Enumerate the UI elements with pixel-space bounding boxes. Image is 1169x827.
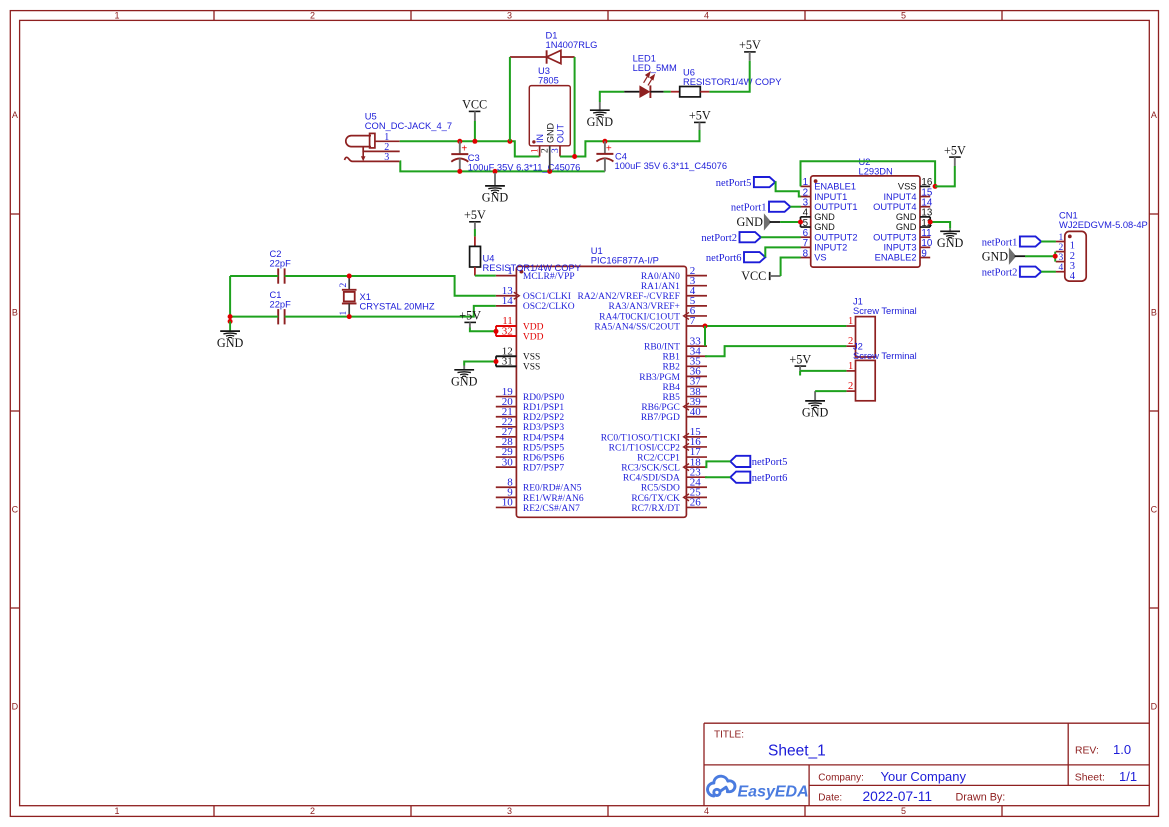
svg-text:D1: D1 <box>546 31 558 41</box>
svg-text:X1: X1 <box>360 292 371 302</box>
U1 pin 36 (RB3/PGM) <box>639 366 707 383</box>
svg-text:5: 5 <box>901 806 906 816</box>
capacitor C1 22pF <box>270 290 292 325</box>
power flag VCC <box>462 98 487 121</box>
wire +5V to U4 <box>474 229 476 236</box>
wire VCC stub <box>474 121 476 141</box>
U1 pin 32 (VDD) <box>496 325 544 342</box>
diode D1 1N4007RLG <box>510 31 598 64</box>
wire netPort2 to CN1 pin4 <box>1041 271 1056 273</box>
U1 pin 7 (RA5/AN4/SS/C2OUT) <box>594 315 707 332</box>
svg-text:2: 2 <box>310 806 315 816</box>
svg-text:RA1/AN1: RA1/AN1 <box>641 282 680 292</box>
net port netPort2 (CN1) <box>982 267 1041 279</box>
svg-text:2: 2 <box>848 381 853 392</box>
U1 pin 37 (RB4) <box>662 376 707 393</box>
U1 pin 8 (RE0/RD#/AN5) <box>496 476 582 493</box>
U2 pin 16 (VSS) <box>898 177 933 191</box>
svg-text:RB7/PGD: RB7/PGD <box>641 413 680 423</box>
svg-text:CN1: CN1 <box>1059 210 1078 220</box>
svg-text:Screw Terminal: Screw Terminal <box>853 306 917 316</box>
U2 pin 14 (OUTPUT4) <box>873 198 933 212</box>
svg-text:RA4/T0CKI/C1OUT: RA4/T0CKI/C1OUT <box>599 312 680 322</box>
U2 pin 5 (GND) <box>801 218 836 232</box>
EasyEDA logo <box>708 776 735 796</box>
svg-text:RC5/SDO: RC5/SDO <box>641 484 680 494</box>
svg-text:RD7/PSP7: RD7/PSP7 <box>523 464 564 474</box>
svg-text:30: 30 <box>502 456 514 468</box>
U1 pin 35 (RB2) <box>662 356 707 373</box>
svg-text:1: 1 <box>848 361 853 372</box>
svg-text:4: 4 <box>704 10 709 20</box>
svg-text:4: 4 <box>704 806 709 816</box>
net port netPort1 (CN1) <box>982 236 1041 248</box>
svg-text:3: 3 <box>507 806 512 816</box>
CN1 pin 3 <box>1056 253 1075 272</box>
svg-text:RESISTOR1/4W COPY: RESISTOR1/4W COPY <box>483 263 582 273</box>
wire RA5 to J1 pin1 <box>705 325 846 327</box>
svg-text:3: 3 <box>384 152 389 163</box>
junction <box>228 314 233 319</box>
svg-text:Sheet_1: Sheet_1 <box>768 742 826 759</box>
U2 pin 7 (INPUT2) <box>801 238 848 252</box>
screw terminal J2 <box>846 341 916 401</box>
wire LED to R <box>664 91 671 93</box>
svg-text:1: 1 <box>848 316 853 327</box>
U1 pin 29 (RD6/PSP6) <box>496 446 565 463</box>
U2 pin 3 (OUTPUT1) <box>801 198 858 212</box>
svg-text:1: 1 <box>530 148 540 153</box>
svg-text:PIC16F877A-I/P: PIC16F877A-I/P <box>591 256 659 266</box>
svg-text:1N4007RLG: 1N4007RLG <box>546 40 598 50</box>
junction <box>1053 254 1058 259</box>
svg-text:RD1/PSP1: RD1/PSP1 <box>523 403 564 413</box>
U1 pin 14 (OSC2/CLKO) <box>496 295 575 312</box>
svg-text:RB6/PGC: RB6/PGC <box>641 403 680 413</box>
U2 pin 1 (ENABLE1) <box>801 177 857 191</box>
svg-text:GND: GND <box>587 115 614 129</box>
svg-text:RE2/CS#/AN7: RE2/CS#/AN7 <box>523 504 580 514</box>
svg-text:CON_DC-JACK_4_7: CON_DC-JACK_4_7 <box>365 121 452 131</box>
svg-text:1/1: 1/1 <box>1119 769 1137 784</box>
U1 pin 9 (RE1/WR#/AN6) <box>496 487 584 504</box>
wire LED gnd branch <box>600 92 624 102</box>
capacitor C2 22pF <box>270 249 292 284</box>
U1 pin 16 (RC1/T1OSI/CCP2) <box>609 436 707 453</box>
U1 pin 15 (RC0/T1OSO/T1CKI) <box>601 426 707 443</box>
svg-text:GND: GND <box>896 212 917 222</box>
svg-text:GND: GND <box>482 191 509 205</box>
junction <box>347 314 352 319</box>
svg-text:GND: GND <box>814 222 835 232</box>
svg-text:VCC: VCC <box>462 98 487 112</box>
svg-text:1: 1 <box>1058 233 1063 243</box>
ground flag GND (CN1 pins 2,3) <box>982 249 1025 264</box>
wire jack pin3 to bottom rail <box>400 161 605 171</box>
capacitor C3 <box>451 141 580 172</box>
svg-text:OSC2/CLKO: OSC2/CLKO <box>523 302 575 312</box>
IC U1 PIC16F877A-I/P <box>516 246 686 517</box>
U1 pin 17 (RC2/CCP1) <box>637 446 707 463</box>
U2 pin 4 (GND) <box>801 208 836 222</box>
LED LED1 LED_5MM <box>624 53 677 98</box>
svg-text:netPort5: netPort5 <box>752 457 788 468</box>
svg-text:9: 9 <box>921 248 926 259</box>
svg-text:CRYSTAL 20MHZ: CRYSTAL 20MHZ <box>360 301 435 311</box>
junction <box>457 139 462 144</box>
svg-text:netPort1: netPort1 <box>731 203 767 214</box>
title block <box>704 723 1149 806</box>
svg-text:RB0/INT: RB0/INT <box>644 343 680 353</box>
svg-text:7: 7 <box>690 315 696 327</box>
CN1 pin 4 <box>1056 263 1076 282</box>
ground GND (VSS) <box>451 366 478 389</box>
svg-text:D: D <box>12 701 19 711</box>
wire netPort5 to RC3 <box>705 461 730 467</box>
U1 pin 19 (RD0/PSP0) <box>496 386 565 403</box>
net port netPort5 (U2) <box>716 177 775 189</box>
U1 pin 38 (RB5) <box>662 386 707 403</box>
svg-text:+5V: +5V <box>459 309 481 323</box>
wire netPort1 to CN1 pin1 <box>1041 241 1056 243</box>
ground flag GND (U2 pins 4,5) <box>736 215 780 230</box>
junction <box>493 169 498 174</box>
svg-text:B: B <box>1151 307 1157 317</box>
wire R to +5V <box>709 61 749 92</box>
junction <box>798 220 803 225</box>
svg-text:MCLR#/VPP: MCLR#/VPP <box>523 272 575 282</box>
svg-text:RC7/RX/DT: RC7/RX/DT <box>631 504 680 514</box>
U1 pin 28 (RD5/PSP5) <box>496 436 565 453</box>
U2 pin 15 (INPUT4) <box>883 187 932 201</box>
U1 pin 11 (VDD) <box>496 315 544 332</box>
wire D1 left branch <box>509 57 511 141</box>
svg-text:1: 1 <box>114 10 119 20</box>
svg-text:GND: GND <box>937 236 964 250</box>
U1 pin 22 (RD3/PSP3) <box>496 416 565 433</box>
svg-text:1: 1 <box>114 806 119 816</box>
U2 pin 12 (GND) <box>896 218 932 232</box>
svg-text:GND: GND <box>545 123 555 144</box>
svg-text:3: 3 <box>551 148 561 153</box>
svg-text:GND: GND <box>736 215 763 229</box>
svg-text:netPort6: netPort6 <box>706 253 742 264</box>
svg-text:2: 2 <box>1058 243 1063 253</box>
svg-text:+: + <box>606 143 612 154</box>
svg-text:INPUT4: INPUT4 <box>883 192 916 202</box>
regulator U3 7805 <box>529 66 570 172</box>
U2 pin 8 (VS) <box>801 248 827 262</box>
svg-text:1: 1 <box>339 311 349 316</box>
U1 pin 5 (RA3/AN3/VREF+) <box>609 295 707 312</box>
svg-text:OUTPUT2: OUTPUT2 <box>814 232 857 242</box>
connector U5 CON_DC-JACK_4_7 <box>345 112 453 164</box>
svg-text:U3: U3 <box>538 66 550 76</box>
svg-text:RA2/AN2/VREF-/CVREF: RA2/AN2/VREF-/CVREF <box>577 292 679 302</box>
wire main input rail <box>400 141 540 156</box>
svg-text:J1: J1 <box>853 297 863 307</box>
svg-text:U4: U4 <box>483 253 495 263</box>
crystal X1 CRYSTAL 20MHZ <box>339 276 435 317</box>
U1 pin 31 (VSS) <box>496 356 541 373</box>
wire netPort1 to pin3 <box>790 206 800 208</box>
power flag +5V (U6) <box>739 38 761 61</box>
ground GND (J2) <box>802 391 829 420</box>
wire netPort5 to pin2 <box>775 182 801 196</box>
svg-text:EasyEDA: EasyEDA <box>738 784 809 801</box>
svg-text:VSS: VSS <box>523 353 540 363</box>
net port netPort1 (U2) <box>731 202 790 214</box>
ground GND under C3 <box>482 173 509 205</box>
svg-text:RA3/AN3/VREF+: RA3/AN3/VREF+ <box>609 302 680 312</box>
svg-text:RB4: RB4 <box>662 383 680 393</box>
svg-text:RC1/T1OSI/CCP2: RC1/T1OSI/CCP2 <box>609 443 681 453</box>
svg-text:2022-07-11: 2022-07-11 <box>863 789 933 804</box>
svg-text:OUTPUT3: OUTPUT3 <box>873 232 916 242</box>
svg-text:RB1: RB1 <box>662 353 680 363</box>
svg-text:netPort2: netPort2 <box>701 233 737 244</box>
svg-text:Screw Terminal: Screw Terminal <box>853 351 917 361</box>
CN1 pin 2 <box>1056 243 1075 262</box>
resistor U6 RESISTOR1/4W COPY <box>671 68 782 97</box>
svg-text:5: 5 <box>901 10 906 20</box>
net port netPort6 (U1) <box>730 472 787 484</box>
ground GND at LED <box>587 102 614 129</box>
wire GND to pins 4,5 <box>780 221 800 223</box>
U1 pin 6 (RA4/T0CKI/C1OUT) <box>599 305 707 322</box>
svg-text:J2: J2 <box>853 341 863 351</box>
svg-text:3: 3 <box>1058 253 1063 263</box>
svg-text:+5V: +5V <box>464 208 486 222</box>
svg-text:GND: GND <box>802 406 829 420</box>
wire D1 right branch <box>574 57 576 157</box>
svg-text:OUTPUT1: OUTPUT1 <box>814 202 857 212</box>
junction C4 top <box>602 139 607 144</box>
power flag +5V (VDD) <box>459 309 481 328</box>
ground GND (U2 right) <box>937 228 964 250</box>
junction <box>228 319 233 324</box>
svg-text:IN: IN <box>535 134 545 143</box>
svg-text:U6: U6 <box>683 68 695 78</box>
wire U3 out to +5V rail <box>560 130 700 157</box>
wire RA5 to RB0 <box>704 326 706 346</box>
junction <box>494 359 499 364</box>
svg-text:100uF 35V 6.3*11_C45076: 100uF 35V 6.3*11_C45076 <box>468 163 581 173</box>
wire RB1 to J1 pin2 <box>705 346 846 356</box>
U2 pin 6 (OUTPUT2) <box>801 228 858 242</box>
U1 pin 26 (RC7/RX/DT) <box>631 497 707 514</box>
wire U4 to MCLR <box>475 275 496 277</box>
svg-text:VS: VS <box>814 253 826 263</box>
svg-text:RD3/PSP3: RD3/PSP3 <box>523 423 564 433</box>
svg-text:Date:: Date: <box>818 792 842 803</box>
svg-text:Drawn By:: Drawn By: <box>956 791 1006 803</box>
wire VSS to GND <box>464 362 496 366</box>
wire +5V to VDD <box>470 328 496 332</box>
junction VSS <box>933 184 938 189</box>
svg-text:100uF 35V 6.3*11_C45076: 100uF 35V 6.3*11_C45076 <box>615 161 728 171</box>
svg-text:+5V: +5V <box>789 352 811 366</box>
U1 pin 40 (RB7/PGD) <box>641 406 707 423</box>
net port netPort2 (U2) <box>701 232 760 244</box>
svg-text:netPort2: netPort2 <box>982 268 1018 279</box>
svg-text:RC2/CCP1: RC2/CCP1 <box>637 453 680 463</box>
ground GND (crystal) <box>217 321 244 350</box>
wire GND to CN1 pins 2,3 <box>1025 255 1055 257</box>
svg-text:Your Company: Your Company <box>881 769 967 784</box>
svg-text:+5V: +5V <box>739 38 761 52</box>
net port netPort6 (U2) <box>706 252 765 264</box>
svg-text:26: 26 <box>690 497 702 509</box>
U1 pin 13 (OSC1/CLKI) <box>496 285 571 302</box>
svg-text:VDD: VDD <box>523 322 544 332</box>
U1 pin 2 (RA0/AN0) <box>641 265 707 282</box>
svg-text:GND: GND <box>451 375 478 389</box>
svg-text:Sheet:: Sheet: <box>1075 773 1105 784</box>
svg-text:RB3/PGM: RB3/PGM <box>639 373 680 383</box>
svg-text:RD6/PSP6: RD6/PSP6 <box>523 453 564 463</box>
wire U2 pins 12,13 to GND <box>929 217 931 227</box>
power flag +5V (J2) <box>789 352 811 371</box>
VSS tie bracket <box>495 356 497 366</box>
connector CN1 WJ2EDGVM-5.08-4P <box>1059 210 1148 281</box>
wire +5V to J2 pin1 <box>800 370 846 372</box>
svg-text:C3: C3 <box>468 153 480 163</box>
resistor U4 RESISTOR1/4W COPY <box>470 236 582 275</box>
svg-text:4: 4 <box>1058 263 1063 273</box>
U1 pin 12 (VSS) <box>496 345 541 362</box>
svg-text:ENABLE1: ENABLE1 <box>814 182 856 192</box>
junction U3 pin2 <box>547 169 552 174</box>
U1 pin 39 (RB6/PGC) <box>641 396 707 413</box>
svg-text:10: 10 <box>502 497 514 509</box>
wire OSC2 net <box>229 276 231 321</box>
wire netPort6 to RC4 <box>705 476 730 478</box>
U1 pin 34 (RB1) <box>662 345 707 362</box>
wire +5V to VSS <box>935 166 955 186</box>
svg-text:8: 8 <box>803 248 809 259</box>
svg-text:VCC: VCC <box>741 269 766 283</box>
U1 pin 27 (RD4/PSP4) <box>496 426 565 443</box>
wire netPort6 to pin7 <box>765 247 800 257</box>
svg-text:VSS: VSS <box>898 182 917 192</box>
U1 pin 33 (RB0/INT) <box>644 335 707 352</box>
svg-text:7805: 7805 <box>538 75 559 85</box>
svg-text:OUTPUT4: OUTPUT4 <box>873 202 916 212</box>
svg-text:RC4/SDI/SDA: RC4/SDI/SDA <box>623 474 680 484</box>
U1 pin 23 (RC4/SDI/SDA) <box>623 466 707 483</box>
U1 pin 20 (RD1/PSP1) <box>496 396 565 413</box>
svg-text:INPUT1: INPUT1 <box>814 192 847 202</box>
svg-text:RC6/TX/CK: RC6/TX/CK <box>631 494 680 504</box>
power flag VCC (U2 pin8) <box>741 269 780 283</box>
U1 pin 21 (RD2/PSP2) <box>496 406 565 423</box>
svg-text:1.0: 1.0 <box>1113 742 1131 757</box>
svg-text:OSC1/CLKI: OSC1/CLKI <box>523 292 571 302</box>
svg-text:U5: U5 <box>365 112 377 122</box>
svg-text:C: C <box>1151 504 1158 514</box>
U2 pin 13 (GND) <box>896 208 933 222</box>
svg-text:A: A <box>1151 110 1157 120</box>
svg-text:4: 4 <box>1070 271 1076 282</box>
svg-text:40: 40 <box>690 406 702 418</box>
svg-text:C4: C4 <box>615 152 627 162</box>
junction <box>457 169 462 174</box>
svg-text:RD4/PSP4: RD4/PSP4 <box>523 433 564 443</box>
svg-text:RD2/PSP2: RD2/PSP2 <box>523 413 564 423</box>
U1 pin 24 (RC5/SDO) <box>641 476 707 493</box>
svg-text:GND: GND <box>814 212 835 222</box>
power flag +5V (C4) <box>689 109 711 130</box>
svg-text:C1: C1 <box>270 290 282 300</box>
wire netPort2 to pin6 <box>761 236 801 238</box>
svg-text:2: 2 <box>541 148 551 153</box>
svg-text:C: C <box>12 504 19 514</box>
svg-text:netPort1: netPort1 <box>982 237 1018 248</box>
U2 pin 9 (ENABLE2) <box>875 248 931 262</box>
svg-text:B: B <box>12 307 18 317</box>
svg-text:LED1: LED1 <box>633 53 656 63</box>
wire VCC to pin8 <box>781 258 801 276</box>
svg-text:LED_5MM: LED_5MM <box>633 63 677 73</box>
U2 pin 11 (OUTPUT3) <box>873 228 931 242</box>
U2 pin 10 (INPUT3) <box>883 238 932 252</box>
U1 pin 10 (RE2/CS#/AN7) <box>496 497 580 514</box>
svg-text:RC0/T1OSO/T1CKI: RC0/T1OSO/T1CKI <box>601 433 680 443</box>
svg-text:2: 2 <box>310 10 315 20</box>
svg-text:+5V: +5V <box>689 109 711 123</box>
svg-text:RB5: RB5 <box>662 393 680 403</box>
U1 pin 18 (RC3/SCK/SCL) <box>621 456 707 473</box>
junction <box>572 154 577 159</box>
wire GND to J2 pin2 <box>815 390 846 392</box>
svg-text:14: 14 <box>502 295 514 307</box>
junction <box>507 139 512 144</box>
svg-text:VDD: VDD <box>523 332 544 342</box>
svg-text:netPort6: netPort6 <box>752 473 788 484</box>
U1 pin 30 (RD7/PSP7) <box>496 456 565 473</box>
svg-text:Company:: Company: <box>818 773 864 784</box>
svg-text:GND: GND <box>217 336 244 350</box>
junction <box>494 329 499 334</box>
svg-text:D: D <box>1151 701 1158 711</box>
svg-text:3: 3 <box>507 10 512 20</box>
svg-text:netPort5: netPort5 <box>716 178 752 189</box>
svg-text:U1: U1 <box>591 246 603 256</box>
U1 pin 25 (RC6/TX/CK) <box>631 487 707 504</box>
svg-text:RB2: RB2 <box>662 363 680 373</box>
svg-text:+: + <box>461 144 467 155</box>
svg-text:REV:: REV: <box>1075 746 1099 757</box>
svg-text:RA5/AN4/SS/C2OUT: RA5/AN4/SS/C2OUT <box>594 322 680 332</box>
power flag +5V (U4) <box>464 208 486 229</box>
junction <box>347 274 352 279</box>
U2 pin 2 (INPUT1) <box>801 187 848 201</box>
svg-text:22pF: 22pF <box>270 258 292 268</box>
U1 pin 3 (RA1/AN1) <box>641 275 707 292</box>
svg-text:22pF: 22pF <box>270 299 292 309</box>
svg-text:RC3/SCK/SCL: RC3/SCK/SCL <box>621 464 680 474</box>
svg-text:2: 2 <box>339 283 349 288</box>
svg-text:RE1/WR#/AN6: RE1/WR#/AN6 <box>523 494 584 504</box>
VDD tie bracket <box>495 326 497 336</box>
svg-text:RD5/PSP5: RD5/PSP5 <box>523 443 564 453</box>
wire OSC1 net <box>230 275 278 277</box>
junction <box>703 324 708 329</box>
U1 pin 4 (RA2/AN2/VREF-/CVREF) <box>577 285 707 302</box>
CN1 pin 1 <box>1056 233 1075 252</box>
IC U2 L293DN <box>811 157 920 267</box>
